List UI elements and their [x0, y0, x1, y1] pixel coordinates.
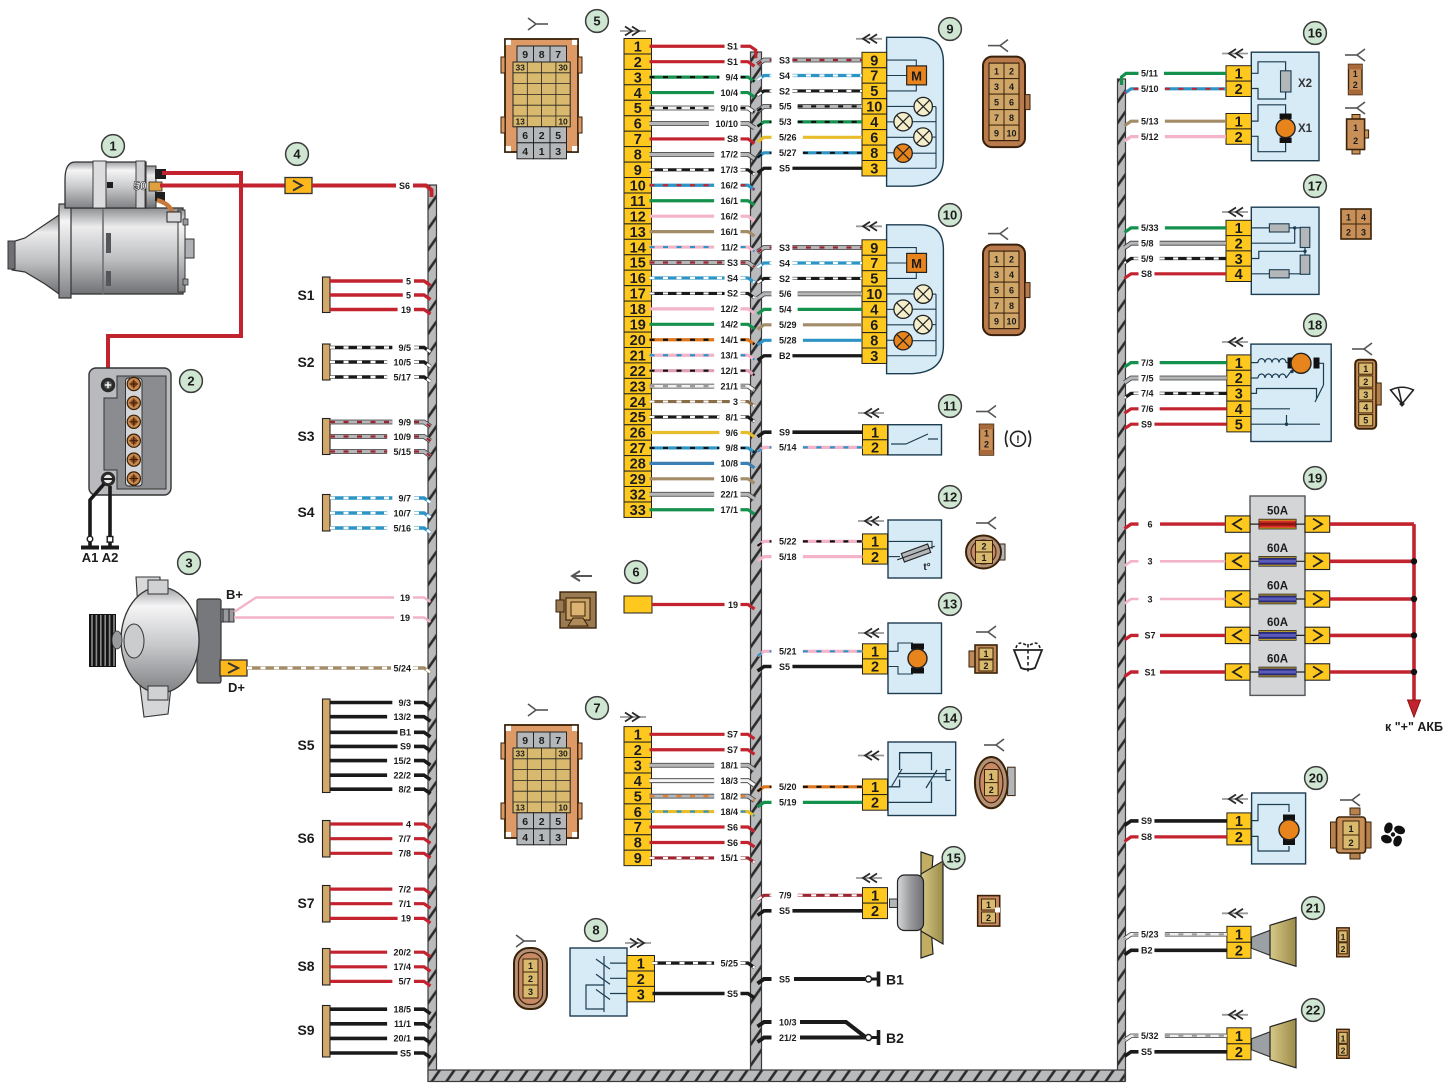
wire 5/3 to lamp cluster 9 pin 4: [758, 117, 863, 127]
lamp cluster 10 body: [887, 225, 944, 374]
wire 16/1 connector 5 pin 13: [650, 227, 755, 237]
svg-text:50: 50: [133, 179, 147, 193]
connector 6 terminal box: [624, 596, 652, 613]
svg-text:20: 20: [1309, 771, 1323, 786]
label circle 17: [1304, 175, 1327, 198]
wire 7/3 component 18: [1125, 358, 1227, 368]
svg-text:1: 1: [1346, 213, 1351, 223]
connector face component 21: [1337, 928, 1350, 957]
connector S1: [297, 277, 330, 313]
wire 18/1 connector 7 pin 3: [650, 761, 755, 771]
component 21 pin strip: [1227, 926, 1251, 959]
wire 12/2 connector 5 pin 18: [650, 304, 755, 314]
svg-text:9/10: 9/10: [720, 103, 738, 113]
svg-text:8: 8: [539, 49, 545, 61]
svg-text:1: 1: [986, 900, 991, 910]
component 8 switch box: [570, 948, 627, 1016]
svg-text:19: 19: [728, 600, 738, 610]
wire 5/15 from S3: [330, 447, 431, 457]
wire 7/7 from S6: [330, 834, 431, 844]
svg-text:17/1: 17/1: [720, 505, 738, 515]
svg-text:S8: S8: [297, 958, 314, 974]
svg-text:5/3: 5/3: [779, 117, 792, 127]
svg-text:5/21: 5/21: [779, 647, 797, 657]
svg-text:7: 7: [994, 301, 999, 311]
component 17 pin strip: [1226, 220, 1251, 283]
svg-text:2: 2: [1353, 136, 1358, 146]
svg-text:1: 1: [1235, 67, 1243, 83]
fuse 60A row (3): [1225, 543, 1329, 570]
svg-text:2: 2: [1235, 944, 1243, 960]
component 14 box: [887, 742, 956, 816]
svg-text:2: 2: [986, 913, 991, 923]
wire 5/29 to lamp cluster 10 pin 6: [758, 320, 863, 330]
svg-text:1: 1: [994, 67, 999, 77]
wire fuse 50A to battery bus: [1330, 522, 1414, 526]
svg-text:5: 5: [994, 98, 999, 108]
wire 5/17 from S2: [330, 372, 431, 382]
branch symbol component 14: [984, 739, 1004, 751]
wire S8 component 17: [1125, 269, 1227, 279]
svg-text:1: 1: [1235, 356, 1243, 372]
svg-text:S1: S1: [727, 42, 738, 52]
svg-text:5: 5: [593, 14, 600, 29]
connector S3: [297, 419, 330, 455]
svg-text:2: 2: [981, 542, 986, 552]
connector face component 17: [1341, 209, 1371, 239]
wire 5/27 to lamp cluster 9 pin 8: [758, 148, 863, 158]
arrow above component 14: [858, 751, 884, 760]
svg-text:9: 9: [522, 735, 528, 747]
svg-text:5/18: 5/18: [779, 552, 797, 562]
svg-text:S9: S9: [779, 428, 790, 438]
lamp 2 of cluster 9: [894, 113, 912, 131]
wire 7/5 component 18: [1125, 373, 1227, 383]
svg-text:6: 6: [522, 130, 528, 142]
label circle 14: [939, 707, 962, 730]
svg-text:D+: D+: [228, 680, 245, 695]
svg-text:S6: S6: [727, 822, 738, 832]
svg-text:9: 9: [870, 241, 878, 257]
arrow above component 17: [1222, 208, 1248, 217]
svg-text:13/1: 13/1: [720, 351, 738, 361]
label circle 9: [939, 18, 962, 41]
wire S9 component 18: [1125, 420, 1227, 430]
svg-text:6: 6: [1147, 519, 1152, 529]
wire 3 fuse box left: [1125, 557, 1226, 567]
svg-text:2: 2: [637, 972, 645, 988]
svg-text:12: 12: [630, 209, 646, 225]
svg-text:B1: B1: [886, 972, 904, 988]
svg-text:X1: X1: [1298, 123, 1313, 135]
wire S7 connector 7 pin 2: [650, 745, 755, 755]
wire S3 to lamp cluster 10 pin 9: [758, 243, 863, 253]
wire fuse 60A to battery bus: [1330, 670, 1414, 674]
svg-text:3: 3: [1147, 594, 1152, 604]
wire 7/4 component 18: [1125, 389, 1227, 399]
wire S7 fuse box left: [1125, 631, 1226, 641]
svg-text:14: 14: [943, 711, 958, 726]
svg-text:13: 13: [515, 116, 525, 126]
svg-text:2: 2: [1341, 1045, 1346, 1055]
branch symbol component 13: [976, 626, 996, 638]
connector S5: [297, 699, 330, 793]
svg-text:5/11: 5/11: [1141, 69, 1158, 79]
svg-text:16: 16: [1308, 26, 1322, 41]
svg-text:5/15: 5/15: [393, 447, 411, 457]
component 16 box: [1251, 52, 1319, 161]
connector 4: [285, 178, 312, 194]
wire 19 component 6: [652, 600, 755, 610]
wire 17/1 connector 5 pin 33: [650, 505, 755, 515]
svg-text:9: 9: [634, 851, 642, 867]
wire starter 30 terminal to battery +: [108, 173, 241, 380]
svg-text:7/5: 7/5: [1141, 373, 1154, 383]
svg-text:S5: S5: [400, 1048, 411, 1058]
branch symbol component 20: [1340, 794, 1360, 806]
svg-text:1: 1: [1235, 221, 1243, 237]
svg-text:7/8: 7/8: [398, 849, 411, 859]
wire 5/24 alternator D+: [247, 663, 431, 673]
svg-text:18/2: 18/2: [720, 791, 738, 801]
svg-text:A1: A1: [82, 550, 99, 565]
svg-text:2: 2: [187, 374, 194, 389]
svg-text:11: 11: [943, 399, 957, 414]
svg-text:1: 1: [528, 961, 533, 971]
wire 7/2 from S7: [330, 884, 431, 894]
wire 18/3 connector 7 pin 4: [650, 776, 755, 786]
svg-text:10: 10: [630, 178, 646, 194]
wire 13/2 from S5: [330, 712, 431, 722]
ground wire A2: [101, 486, 119, 565]
wire 5/14 component 11 pin 2: [758, 443, 863, 453]
branch symbol above 10-pin connector 9: [988, 40, 1008, 52]
svg-text:1: 1: [1363, 364, 1368, 374]
arrow above component 13: [858, 629, 884, 638]
wire 5/28 to lamp cluster 10 pin 8: [758, 336, 863, 346]
svg-text:3: 3: [555, 832, 561, 844]
connector 7 pinout face view: [501, 725, 582, 845]
wire 17/2 connector 5 pin 8: [650, 150, 755, 160]
wire B1 from S5: [330, 728, 431, 738]
svg-text:S1: S1: [727, 57, 738, 67]
wire 10/9 from S3: [330, 432, 431, 442]
svg-text:5/20: 5/20: [779, 782, 797, 792]
svg-text:A2: A2: [102, 550, 119, 565]
wire S7 connector 7 pin 1: [650, 730, 755, 740]
svg-text:B+: B+: [226, 587, 243, 602]
svg-text:1: 1: [871, 780, 879, 796]
wire S6 connector 7 pin 8: [650, 838, 755, 848]
wire 11/2 connector 5 pin 14: [650, 242, 755, 252]
wire 10/8 connector 5 pin 28: [650, 459, 755, 469]
svg-text:10: 10: [866, 287, 882, 303]
motor M of lamp cluster 10: [907, 253, 927, 272]
connector A component 16: [1349, 64, 1363, 94]
svg-text:2: 2: [1235, 371, 1243, 387]
wire 5/25 connector 8 pin 1: [653, 958, 755, 968]
svg-text:2: 2: [1341, 944, 1346, 954]
alternator 3: [89, 577, 247, 717]
svg-text:S6: S6: [297, 830, 314, 846]
svg-text:1: 1: [637, 956, 645, 972]
arrow symbol above connector 7: [620, 713, 646, 722]
wire 7/6 component 18: [1125, 404, 1227, 414]
wire 5/21 component 13 pin 1: [758, 647, 863, 657]
wire 7/9 component 15 pin 1: [758, 891, 863, 901]
wire S1 connector 5 pin 2: [650, 57, 755, 67]
svg-text:4: 4: [1009, 270, 1014, 280]
component 18 box: [1251, 344, 1331, 441]
svg-text:4: 4: [1363, 403, 1368, 413]
svg-text:23: 23: [630, 379, 646, 395]
wire 5/10 component 16: [1125, 84, 1227, 94]
svg-text:3: 3: [1363, 390, 1368, 400]
component 18 pin strip: [1227, 355, 1251, 434]
wire S3 to lamp cluster 9 pin 9: [758, 55, 863, 65]
fuse 60A row (S1): [1225, 654, 1329, 681]
svg-text:10/6: 10/6: [720, 474, 738, 484]
svg-text:2: 2: [984, 440, 989, 450]
component 20 pin strip: [1227, 813, 1251, 846]
svg-text:B2: B2: [1141, 946, 1153, 956]
svg-text:5: 5: [994, 286, 999, 296]
svg-text:5/10: 5/10: [1141, 84, 1159, 94]
svg-text:1: 1: [1341, 1033, 1346, 1043]
svg-text:17/3: 17/3: [720, 165, 738, 175]
branch symbol above connector 5 pinout: [528, 18, 548, 30]
svg-text:5/29: 5/29: [779, 320, 797, 330]
svg-text:5/5: 5/5: [779, 102, 792, 112]
svg-text:9/3: 9/3: [398, 698, 411, 708]
lamp 3 of cluster 9: [914, 128, 932, 146]
wire 18/2 connector 7 pin 5: [650, 791, 755, 801]
svg-text:6: 6: [1009, 98, 1014, 108]
svg-text:2: 2: [1235, 830, 1243, 846]
svg-text:7/9: 7/9: [779, 891, 792, 901]
svg-text:S7: S7: [727, 745, 738, 755]
svg-text:S5: S5: [779, 974, 790, 984]
component 15 horn icon: [890, 852, 944, 958]
wire 5/16 from S4: [330, 523, 431, 533]
svg-text:11/2: 11/2: [721, 242, 738, 252]
wire 9/4 connector 5 pin 3: [650, 72, 755, 82]
arrow symbol above connector 8: [625, 939, 651, 948]
wire 9/3 from S5: [330, 698, 431, 708]
svg-text:2: 2: [871, 660, 879, 676]
svg-text:8: 8: [539, 735, 545, 747]
svg-text:11: 11: [630, 194, 645, 210]
arrow above component 16: [1222, 49, 1248, 58]
svg-text:5/19: 5/19: [779, 798, 797, 808]
svg-text:3: 3: [528, 987, 533, 997]
arrow above component 21: [1222, 909, 1248, 918]
ground point B1: [758, 972, 905, 988]
svg-text:S5: S5: [779, 906, 790, 916]
component 21 horn icon: [1252, 917, 1297, 966]
svg-text:5/17: 5/17: [393, 372, 411, 382]
svg-text:3: 3: [555, 146, 561, 158]
svg-text:!: !: [1016, 434, 1020, 446]
svg-text:10: 10: [943, 208, 957, 223]
svg-text:1: 1: [539, 146, 545, 158]
svg-text:32: 32: [630, 487, 646, 503]
svg-text:5/7: 5/7: [398, 977, 411, 987]
svg-text:S3: S3: [297, 428, 314, 444]
svg-text:19: 19: [1308, 471, 1322, 486]
svg-text:S9: S9: [400, 742, 411, 752]
svg-text:1: 1: [109, 139, 116, 154]
arrow symbol above connector 5: [620, 27, 646, 36]
label circle 19: [1304, 467, 1327, 490]
svg-text:4: 4: [522, 832, 528, 844]
wire 8/1 connector 5 pin 25: [650, 412, 755, 422]
svg-text:8: 8: [634, 148, 642, 164]
wire 14/1 connector 5 pin 20: [650, 335, 755, 345]
svg-text:2: 2: [871, 441, 879, 457]
svg-text:26: 26: [630, 426, 646, 442]
svg-text:2: 2: [871, 550, 879, 566]
svg-text:4: 4: [1235, 267, 1243, 283]
svg-text:4: 4: [1361, 213, 1366, 223]
component 13 pin strip: [863, 644, 888, 676]
svg-text:5/16: 5/16: [393, 523, 411, 533]
svg-text:9/5: 9/5: [398, 343, 411, 353]
wire 10/6 connector 5 pin 29: [650, 474, 755, 484]
wire S5 component 13 pin 2: [758, 662, 863, 672]
svg-text:7: 7: [870, 256, 878, 272]
svg-text:17: 17: [630, 287, 646, 303]
svg-text:2: 2: [989, 785, 994, 795]
svg-text:S4: S4: [297, 504, 314, 520]
svg-text:15/1: 15/1: [720, 853, 738, 863]
connector face component 18: [1355, 360, 1381, 429]
svg-text:6: 6: [634, 805, 642, 821]
svg-text:9/6: 9/6: [725, 428, 738, 438]
svg-text:7/1: 7/1: [398, 899, 411, 909]
wire 5/13 component 16: [1125, 117, 1227, 127]
svg-text:15: 15: [630, 256, 646, 272]
component 17 box: [1251, 207, 1319, 294]
wire 10/5 from S2: [330, 357, 431, 367]
svg-text:5/26: 5/26: [779, 133, 797, 143]
label circle 21: [1302, 897, 1325, 920]
svg-text:2: 2: [1235, 236, 1243, 252]
svg-text:4: 4: [406, 819, 411, 829]
label circle 13: [939, 593, 962, 616]
svg-text:10: 10: [1006, 317, 1016, 327]
wire 5/11 component 16: [1122, 69, 1227, 85]
wire 3 fuse box left: [1125, 594, 1226, 604]
connector S9: [297, 1006, 330, 1058]
component 12 sensor box: [888, 520, 942, 578]
branch symbol connector A 16: [1345, 49, 1365, 61]
motor M of lamp cluster 9: [907, 66, 927, 85]
wire 10/7 from S4: [330, 508, 431, 518]
svg-text:7/3: 7/3: [1141, 358, 1154, 368]
svg-text:4: 4: [522, 146, 528, 158]
wire 5/26 to lamp cluster 9 pin 6: [758, 133, 863, 143]
label circle 12: [939, 486, 962, 509]
svg-text:2: 2: [528, 974, 533, 984]
lamp 2 of cluster 10: [894, 300, 912, 318]
svg-text:6: 6: [632, 565, 639, 580]
svg-text:5/22: 5/22: [779, 537, 797, 547]
wiper icon: [1391, 387, 1414, 407]
wire S3 connector 5 pin 15: [650, 258, 755, 268]
wire B2 to lamp cluster 10 pin 3: [758, 351, 863, 361]
svg-text:S9: S9: [1141, 816, 1152, 826]
svg-text:16: 16: [630, 271, 646, 287]
wire 9/9 from S3: [330, 417, 431, 427]
svg-text:10/7: 10/7: [393, 508, 411, 518]
wire 20/1 from S9: [330, 1034, 431, 1044]
svg-text:S4: S4: [779, 71, 790, 81]
svg-text:7/4: 7/4: [1141, 389, 1154, 399]
wire 22/1 connector 5 pin 32: [650, 490, 755, 500]
svg-text:21: 21: [1306, 901, 1320, 916]
svg-text:8: 8: [1009, 113, 1014, 123]
arrow above component 18: [1222, 338, 1248, 347]
svg-text:9/4: 9/4: [725, 72, 738, 82]
fuse 60A row (S7): [1225, 617, 1329, 644]
label circle 16: [1304, 22, 1327, 45]
svg-text:24: 24: [630, 395, 646, 411]
svg-text:1: 1: [994, 255, 999, 265]
svg-text:7/2: 7/2: [398, 884, 411, 894]
svg-text:8: 8: [870, 146, 878, 162]
connector S6: [297, 821, 330, 858]
svg-text:S8: S8: [727, 134, 738, 144]
svg-text:S5: S5: [297, 737, 314, 753]
svg-text:1: 1: [871, 645, 879, 661]
wire S2 to lamp cluster 9 pin 5: [758, 86, 863, 96]
svg-text:1: 1: [1353, 123, 1358, 133]
svg-text:S6: S6: [399, 181, 410, 191]
wire 17/3 connector 5 pin 9: [650, 165, 755, 175]
svg-text:60A: 60A: [1267, 617, 1288, 629]
svg-text:S8: S8: [1141, 832, 1152, 842]
svg-text:3: 3: [870, 161, 878, 177]
svg-text:5/25: 5/25: [720, 958, 738, 968]
wire S4 to lamp cluster 10 pin 7: [758, 258, 863, 268]
svg-text:2: 2: [1353, 80, 1358, 90]
svg-text:B1: B1: [399, 728, 411, 738]
wire 9/5 from S2: [330, 343, 431, 353]
svg-text:19: 19: [401, 305, 411, 315]
wire S2 to lamp cluster 10 pin 5: [758, 274, 863, 284]
svg-text:1: 1: [1235, 928, 1243, 944]
svg-text:1: 1: [989, 772, 994, 782]
branch symbol connector B 16: [1345, 102, 1365, 114]
svg-text:60A: 60A: [1267, 581, 1288, 593]
svg-text:S7: S7: [727, 730, 738, 740]
wire 5/5 to lamp cluster 9 pin 10: [758, 102, 863, 112]
svg-text:22/1: 22/1: [720, 490, 738, 500]
wire harness left bar: [428, 185, 437, 1081]
svg-text:S1: S1: [1144, 667, 1155, 677]
wire 9/6 connector 5 pin 26: [650, 428, 755, 438]
fuse 60A row (3): [1225, 581, 1329, 608]
connector 5 pin strip (pins 1-33): [624, 39, 652, 519]
svg-text:4: 4: [870, 115, 878, 131]
svg-text:1: 1: [981, 553, 986, 563]
svg-text:1: 1: [871, 889, 879, 905]
svg-text:18/3: 18/3: [720, 776, 738, 786]
label circle 15: [942, 847, 965, 870]
washer spray icon: [1014, 643, 1042, 673]
svg-text:8: 8: [870, 334, 878, 350]
